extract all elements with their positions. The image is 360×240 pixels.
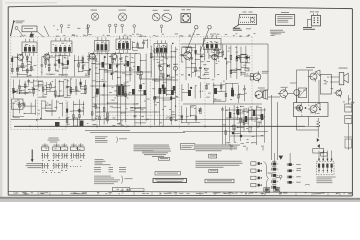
- section boundary dashed bottom left: [11, 129, 66, 131]
- power drops: [230, 147, 232, 151]
- harness wires with arrows: [318, 151, 333, 162]
- scan shadow bottom light band: [0, 199, 360, 202]
- specification note box: [270, 12, 295, 34]
- ground bus segment right: [183, 131, 268, 133]
- trimmer C-f: [133, 25, 136, 28]
- transistor T11 (in splitter box): [297, 105, 303, 111]
- connector lug A5: [270, 186, 272, 189]
- connector detail caption: [316, 177, 335, 184]
- battery wiring: [347, 95, 349, 104]
- connector lug A4: [270, 180, 272, 183]
- discriminator diode D2: [167, 74, 170, 78]
- dial cord diagonal B: [44, 26, 49, 37]
- output transistor T12: [336, 90, 342, 96]
- thermistor blob B: [240, 135, 243, 138]
- IF transformer Tr4: [116, 39, 131, 50]
- splitter input transformer: [294, 90, 300, 96]
- switch note text: [27, 162, 43, 165]
- trimmer C-d: [114, 24, 117, 27]
- battery cell B1: [345, 104, 352, 112]
- pushbutton key box 4: [70, 147, 77, 150]
- tube socket V3: [152, 13, 160, 21]
- section boundary dashed vertical 4: [96, 37, 98, 130]
- ground bus segment left: [85, 129, 130, 131]
- buffer cap Cb1: [233, 125, 235, 130]
- spare part item 2: [251, 169, 256, 172]
- wave switch contact row 1: [41, 153, 85, 158]
- transistor T6 (AF preamp): [184, 52, 192, 60]
- model list text: [95, 159, 111, 165]
- AF mid wiring cluster: [182, 82, 247, 104]
- top area small labels: [68, 24, 71, 27]
- connector lug B3: [286, 176, 288, 179]
- section boundary dashed vertical 8: [204, 37, 206, 130]
- driver input box: [245, 68, 249, 71]
- option box left: [180, 144, 195, 150]
- pushbutton key box 3: [61, 147, 68, 150]
- detector diode Db: [162, 85, 165, 90]
- title block strip: [8, 191, 353, 196]
- ratio detector trimmer A: [159, 66, 163, 70]
- scan ink blobs: [26, 43, 257, 121]
- legend note with brace: [94, 176, 133, 185]
- tube socket V1 label: [91, 9, 98, 12]
- AGC bus wire: [11, 119, 258, 121]
- scan streak top left: [5, 2, 57, 3]
- scan shadow bottom dark band: [0, 197, 360, 200]
- antenna coupling capacitor: [30, 34, 33, 38]
- connector lug A1: [270, 163, 272, 166]
- ratio detector trimmer B: [174, 66, 178, 70]
- feedback network box: [240, 55, 247, 62]
- RF stage wiring cluster: [11, 53, 36, 77]
- IF can K3: [127, 61, 130, 67]
- IF transformer Tr3: [95, 41, 110, 52]
- output stage wiring: [272, 70, 321, 160]
- ground bus wire mid: [90, 131, 185, 133]
- electrolytic C18: [188, 90, 191, 96]
- plug contact pair: [317, 138, 320, 142]
- bias diode box: [298, 88, 307, 98]
- transistor T7: [212, 54, 218, 60]
- note box small: [155, 172, 181, 175]
- voltage table text: [94, 167, 126, 172]
- connector lug A3: [270, 174, 272, 177]
- transistor T4 (IF amp 2): [111, 54, 117, 60]
- dial scale box: [22, 26, 37, 32]
- AF coupling line: [183, 103, 262, 105]
- detector input box: [137, 72, 142, 75]
- speaker feed wires: [330, 76, 339, 78]
- parts brace label: [268, 172, 273, 175]
- detector diode Da: [139, 85, 142, 90]
- output stage labels: [306, 66, 315, 69]
- electrolytic C12: [159, 88, 162, 94]
- horizontal wire y44: [181, 43, 269, 45]
- IF strip horizontal wires: [90, 53, 178, 113]
- IF can K5: [144, 90, 147, 95]
- fork contact: [279, 175, 282, 178]
- spare part item 4: [251, 183, 256, 186]
- transistor T10 cone: [316, 103, 320, 109]
- revision stamp A: [264, 188, 270, 192]
- test point TP2: [208, 26, 211, 29]
- wave switch contact row 2: [41, 163, 68, 168]
- note top far left of output: [271, 32, 277, 35]
- spare part item 1: [251, 162, 256, 165]
- wide annotation box: [205, 179, 234, 183]
- connector lug A2: [270, 168, 272, 171]
- section boundary dashed vertical 9: [251, 37, 253, 130]
- antenna lead-in: [11, 21, 14, 36]
- test point TP1: [195, 26, 198, 29]
- power plug P1 (multi-pin connector): [233, 12, 257, 31]
- horizontal wire y77 left: [11, 76, 90, 78]
- connector lug B4: [286, 181, 288, 184]
- schematic border frame left: [7, 7, 9, 195]
- output transistor AD152: [280, 90, 288, 98]
- dial cord diagonal C: [18, 30, 24, 37]
- transistor T3 (IF amp 1): [89, 53, 95, 59]
- schematic border frame top: [8, 6, 352, 9]
- buffer cap Cb3: [257, 122, 259, 127]
- diode D4: [246, 56, 249, 60]
- loudspeaker LS1 label: [339, 67, 348, 70]
- IF transformer Tr1: [22, 42, 37, 53]
- section boundary dashed vertical 7: [179, 37, 181, 130]
- rectifier stack E5: [261, 114, 263, 120]
- type box small mid: [159, 157, 170, 160]
- power supply wiring cluster: [221, 105, 265, 147]
- IF strip wiring cluster: [91, 52, 149, 126]
- discriminator diode D1: [167, 64, 170, 68]
- germanium diode D0: [13, 90, 18, 94]
- loudspeaker LS1: [339, 73, 344, 85]
- section boundary dashed vertical 1: [10, 37, 12, 130]
- column wires far right: [273, 153, 275, 163]
- AF stage wiring cluster: [180, 44, 248, 81]
- mixer stage wiring cluster: [41, 54, 71, 76]
- transistor T1 (RF amp): [17, 54, 23, 60]
- supply connector J1: [303, 11, 321, 29]
- dial cord diagonal A: [37, 32, 44, 38]
- switch table heading: [49, 137, 59, 140]
- tube socket V4: [162, 14, 172, 22]
- electrolytic C10: [96, 89, 99, 95]
- tube socket V1: [91, 13, 98, 20]
- footnote paragraph 2: [196, 145, 240, 152]
- pilot lamp item: [305, 183, 310, 186]
- interconnect wires driver: [244, 75, 253, 77]
- section boundary dashed vertical 5: [125, 37, 127, 130]
- detector wiring cluster: [150, 45, 178, 126]
- detector bus wire: [140, 78, 172, 80]
- buffer cap Cb2: [249, 127, 251, 132]
- tuning cap wiring cluster: [66, 99, 88, 125]
- small box under paragraph: [209, 169, 218, 172]
- vibrator unit box label: [182, 8, 186, 11]
- driver transformer Tr7: [255, 91, 263, 99]
- AF transformer Tr6: [204, 39, 222, 50]
- section boundary dashed top: [11, 36, 252, 38]
- mixer-osc coupling cluster: [74, 52, 90, 77]
- rectifier stack E3: [245, 116, 247, 122]
- revision stamp B: [274, 188, 280, 192]
- trimmer C-a: [60, 25, 63, 28]
- rectifier stack E4: [253, 110, 255, 116]
- electrolytic C13: [171, 90, 174, 95]
- IF transformer Tr4b: [154, 44, 167, 54]
- chassis list text: [95, 136, 127, 142]
- dial lamp L1: [15, 27, 18, 30]
- tube socket V2 label: [119, 9, 127, 12]
- electrolytic C11: [132, 89, 135, 95]
- IF strip upper links: [132, 39, 148, 51]
- description paragraph: [196, 161, 243, 168]
- section boundary dashed vertical 2: [37, 37, 39, 130]
- vibrator unit box: [181, 14, 191, 23]
- wire stem left of V1: [87, 24, 89, 36]
- parts brace: [264, 162, 269, 196]
- electrolytic C20: [231, 90, 234, 96]
- IF can K1: [102, 62, 105, 68]
- spare part item 3: [251, 176, 256, 179]
- connector lug B2: [286, 169, 288, 172]
- driver transistor labels: [262, 70, 269, 73]
- transistor T10 (output): [310, 106, 317, 113]
- supply bus wire: [14, 125, 305, 127]
- thermistor blob A: [232, 132, 235, 135]
- rectifier stack E1: [229, 112, 231, 118]
- section boundary dashed vertical 6: [150, 37, 152, 130]
- T12 note text: [348, 98, 350, 101]
- speaker plug arrow: [279, 156, 284, 160]
- diode D3: [236, 56, 239, 60]
- title block stamp box 2: [131, 188, 145, 191]
- pushbutton key box 5: [78, 147, 85, 150]
- oscillator wiring cluster: [12, 78, 87, 98]
- transistor T9 cone: [316, 70, 320, 76]
- IF transformer Tr2: [51, 41, 72, 53]
- detector diode Dc: [173, 86, 176, 91]
- phase splitter box: [294, 103, 329, 117]
- tube socket V3 label: [153, 9, 158, 12]
- bus junction dots: [29, 126, 262, 127]
- trimmer C-b: [87, 25, 90, 28]
- transistor T9 (output): [310, 73, 317, 80]
- AF lower wiring cluster: [181, 105, 202, 124]
- driver transistor AC117: [253, 73, 261, 81]
- tube socket V4 label: [164, 9, 170, 12]
- IF can K2: [109, 64, 112, 69]
- footnote paragraph 1: [134, 145, 171, 152]
- trimmer C-e: [121, 24, 124, 27]
- note box black: [153, 179, 187, 183]
- wire y44 drop to driver: [267, 44, 269, 90]
- scan shadow left edge: [0, 0, 2, 202]
- switch pointer arrow: [31, 150, 33, 160]
- connector detail dashed box: [316, 161, 334, 175]
- transistor T2 (mixer): [44, 54, 50, 60]
- driver transformer Tr7 label: [258, 87, 265, 90]
- battery cell B2: [345, 116, 352, 124]
- output transformer block: [118, 86, 121, 95]
- rectifier stack E2: [237, 109, 239, 115]
- pushbutton key box 1: [41, 147, 49, 150]
- electrolytic C19: [214, 88, 217, 94]
- switch position dots: [42, 160, 82, 173]
- oscillator coil L3: [74, 118, 78, 126]
- component label row above sections: [140, 33, 142, 36]
- title block stamp box 1: [113, 187, 130, 191]
- right-aligned note: [142, 151, 171, 157]
- tall electrolytic block: [321, 75, 332, 95]
- connector lug B1: [286, 163, 288, 166]
- pushbutton key box 2: [53, 147, 61, 150]
- trimmer C-c: [108, 24, 111, 27]
- schematic border frame right: [351, 9, 353, 196]
- trimmer C-g: [160, 25, 163, 28]
- wave band legend box: [12, 99, 24, 109]
- fuse F1: [317, 121, 321, 127]
- output transistor AD152 label: [281, 86, 288, 89]
- IF can K4: [137, 66, 140, 71]
- section boundary dashed vertical 3: [65, 37, 67, 130]
- power links: [226, 109, 266, 111]
- section boundary dashed mid: [97, 115, 180, 117]
- band switch wiring cluster: [12, 99, 62, 118]
- transistor T6 label: [183, 46, 192, 49]
- type label box: [209, 154, 217, 158]
- padder capacitor C5: [55, 122, 60, 127]
- tube socket V2: [119, 13, 127, 21]
